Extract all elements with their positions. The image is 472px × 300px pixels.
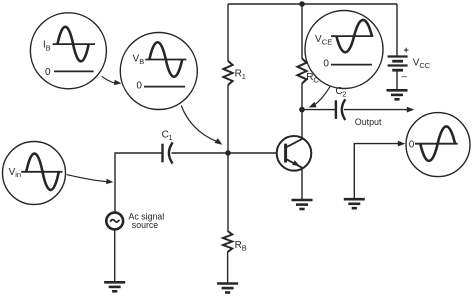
svg-text:+: + <box>404 45 409 55</box>
ground under emitter <box>292 199 313 202</box>
svg-text:R: R <box>235 69 242 80</box>
transistor Q1 <box>277 136 312 171</box>
waveform bubble VB <box>120 33 197 110</box>
node top RC junction <box>299 1 305 7</box>
ac source circle <box>106 213 123 230</box>
arrow Vin to input wire <box>67 175 108 182</box>
node collector junction <box>299 107 305 113</box>
svg-text:R: R <box>235 240 242 251</box>
svg-text:B: B <box>139 57 144 66</box>
svg-text:1: 1 <box>242 72 246 81</box>
svg-text:1: 1 <box>168 133 172 142</box>
svg-text:B: B <box>242 244 247 253</box>
resistor RB <box>223 231 232 252</box>
output arrowhead <box>407 107 415 113</box>
waveform bubble IB <box>30 13 106 89</box>
ground under ac source <box>104 281 125 284</box>
wire RC to collector junction <box>301 84 303 110</box>
resistor R1 <box>223 61 232 85</box>
wire input corner to C1 <box>115 153 163 213</box>
wire ac source to ground <box>114 229 116 282</box>
arrow VCE to collector junction <box>314 87 331 106</box>
wire base junction to RB <box>227 153 229 231</box>
svg-text:CC: CC <box>419 61 430 70</box>
capacitor C1 <box>163 143 173 164</box>
svg-text:0: 0 <box>45 67 51 78</box>
wire battery to ground <box>396 70 398 90</box>
svg-text:0: 0 <box>136 81 142 92</box>
svg-text:R: R <box>306 72 313 83</box>
svg-text:0: 0 <box>323 59 329 70</box>
capacitor C2 <box>336 99 345 120</box>
arrowhead into output bubble <box>398 141 406 147</box>
wire emitter to ground <box>301 168 303 200</box>
resistor RC <box>297 59 306 84</box>
ground under battery <box>387 89 408 92</box>
svg-text:CE: CE <box>322 38 332 47</box>
arrow IB to VB <box>102 76 116 83</box>
wire top rail <box>228 3 397 5</box>
svg-text:2: 2 <box>342 90 346 99</box>
svg-text:0: 0 <box>409 139 415 150</box>
wire collector junction to C2 <box>302 109 336 111</box>
wire collector junction to transistor <box>301 110 303 139</box>
svg-text:Output: Output <box>355 117 382 127</box>
waveform bubble Vin <box>3 142 66 205</box>
wire C2 to output arrow <box>344 109 407 111</box>
wire R1 branch upper <box>227 4 229 61</box>
svg-text:–: – <box>402 72 408 83</box>
svg-text:C: C <box>313 75 319 84</box>
wire RC branch upper <box>301 4 303 59</box>
svg-text:source: source <box>132 220 159 230</box>
svg-text:in: in <box>15 170 21 179</box>
wire R1 to base junction <box>227 85 229 153</box>
arrow VB to base junction <box>181 106 217 142</box>
wire C1 to transistor base <box>172 152 278 154</box>
label Ac signal source <box>129 211 165 230</box>
battery VCC <box>388 57 408 71</box>
svg-text:B: B <box>46 43 51 52</box>
wire output ground L <box>354 144 398 199</box>
node base junction <box>225 150 231 156</box>
ground under output wire <box>344 198 365 201</box>
waveform bubble VCE <box>305 11 383 89</box>
waveform bubble output <box>406 113 470 177</box>
wire rail to battery <box>396 4 398 56</box>
ground under RB <box>217 282 238 285</box>
wire RB to ground <box>227 252 229 283</box>
